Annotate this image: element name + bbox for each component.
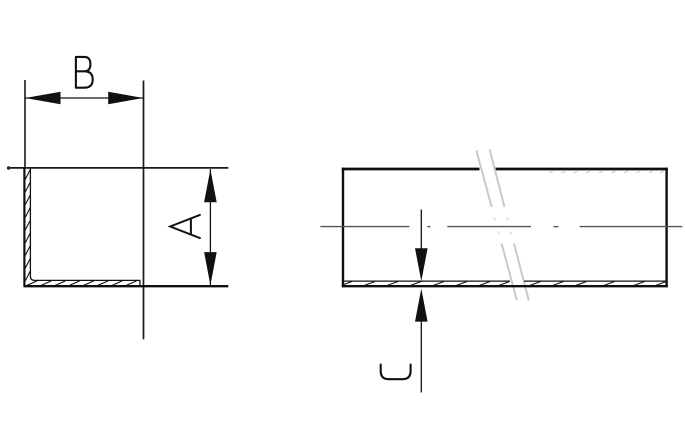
left view : left extension line for B (24, 80, 26, 168)
profile bottom outer line (extends right as extension line for A) (24, 285, 229, 287)
left view : right extension line for B (143, 81, 145, 340)
right view : top edge left segment (342, 168, 480, 171)
arrowhead A top (204, 169, 217, 202)
arrowhead C upper (points down) (415, 248, 428, 281)
arrowhead B left (25, 92, 60, 105)
hatching of vertical leg (25, 170, 30, 281)
faint hatch ticks under top edge (549, 171, 664, 173)
dimension C upper line (420, 210, 422, 251)
right view : rectangle right edge (665, 168, 667, 288)
left view : extension line top (A datum line) (8, 167, 229, 169)
right view : flange hatching (342, 282, 667, 286)
centerline (dash-dot) (320, 226, 682, 228)
break line 2 (lower segment) (514, 244, 529, 301)
arrowhead B right (108, 92, 143, 105)
right view : top edge right segment (494, 168, 668, 171)
profile inner contour (inner edge of vertical leg + inner edge of bottom leg + right end edge) (30, 168, 139, 285)
dot at start of top extension line (7, 166, 10, 169)
arrowhead A bottom (204, 252, 217, 285)
profile outer left edge (vertical leg) (23, 167, 25, 287)
break line 1 (lower segment) (502, 244, 517, 301)
dimension line A (209, 169, 211, 285)
break line 1 faint middle dots (494, 218, 499, 234)
right view : rectangle left edge (342, 168, 344, 288)
right view : bottom outer edge (342, 285, 668, 287)
break line 2 (upper segment) (490, 149, 505, 207)
label letter B (76, 57, 93, 88)
dimension line B (25, 97, 144, 99)
label letter C (rotated 90 ccw) (381, 365, 411, 380)
break line 1 (upper segment) (476, 150, 491, 207)
right view : flange inner line right segment (524, 280, 665, 282)
dimension C lower line (420, 320, 422, 393)
arrowhead C lower (points up) (415, 289, 428, 322)
label letter A (rotated 90 ccw) (170, 215, 200, 238)
break line 2 faint middle dots (507, 218, 511, 235)
hatching of bottom leg (27, 281, 137, 286)
right view : flange inner line left segment (344, 280, 510, 282)
